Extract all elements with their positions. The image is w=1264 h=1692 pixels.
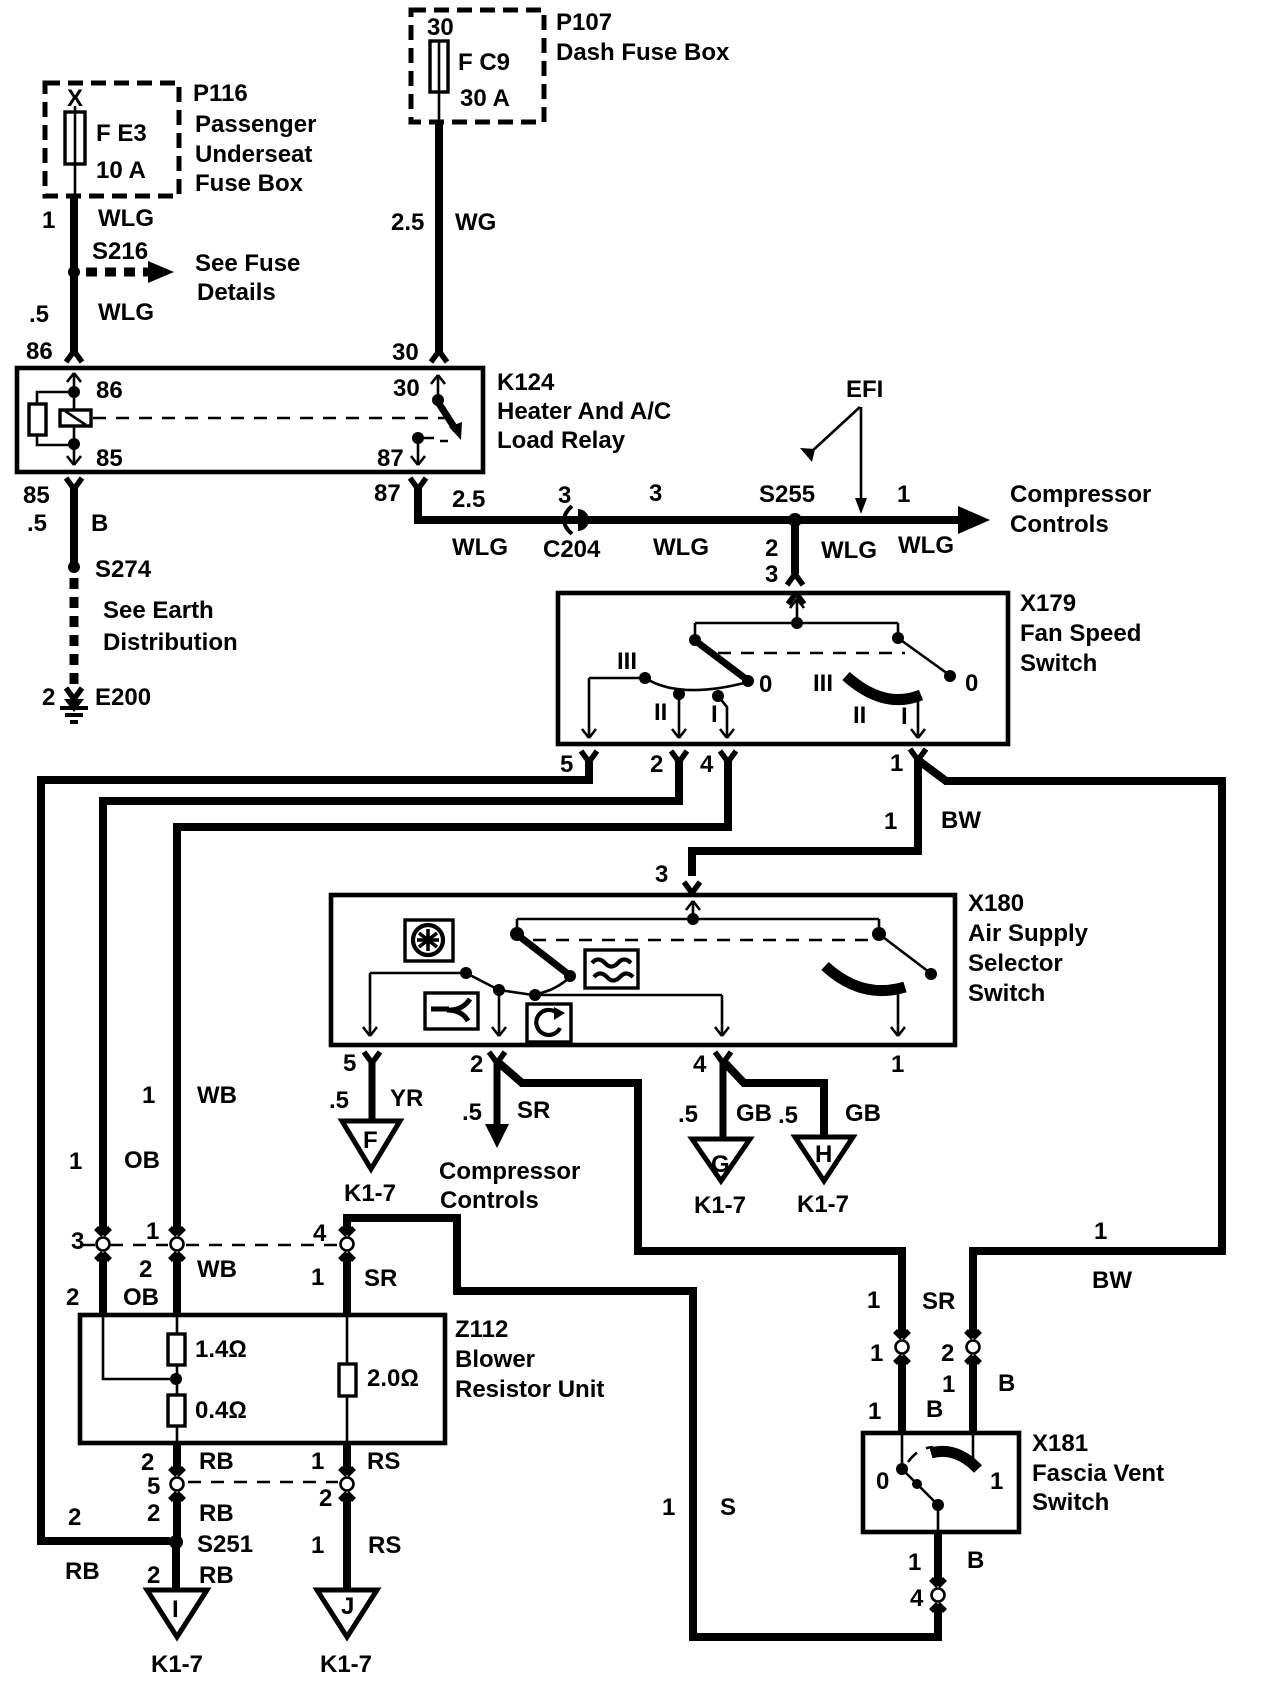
svg-text:Fuse Box: Fuse Box [195, 170, 304, 197]
contact I left [712, 690, 724, 702]
defrost icon [585, 950, 638, 988]
svg-text:S274: S274 [95, 556, 152, 583]
svg-text:WLG: WLG [452, 534, 508, 561]
svg-text:1: 1 [870, 1340, 883, 1367]
svg-text:85: 85 [96, 445, 123, 472]
fan speed switch X179 box [558, 593, 1008, 744]
svg-text:2: 2 [68, 1504, 81, 1531]
ground E200 [64, 699, 84, 712]
pin 1 internal lead [901, 1433, 904, 1466]
svg-text:3: 3 [655, 861, 668, 888]
svg-text:Z112: Z112 [455, 1316, 508, 1343]
svg-text:5: 5 [147, 1473, 160, 1500]
relay coil resistor [37, 392, 74, 445]
svg-text:S: S [720, 1494, 736, 1521]
connector pin 2 (RS) [340, 1468, 354, 1475]
svg-text:G: G [711, 1151, 730, 1178]
svg-text:5: 5 [343, 1050, 356, 1077]
svg-text:See Fuse: See Fuse [195, 250, 300, 277]
svg-text:WLG: WLG [98, 299, 154, 326]
connector C204 [564, 506, 572, 534]
svg-text:1: 1 [884, 808, 897, 835]
svg-text:Switch: Switch [1032, 1489, 1109, 1516]
svg-text:Heater And A/C: Heater And A/C [497, 398, 671, 425]
svg-text:BW: BW [1092, 1267, 1132, 1294]
svg-text:B: B [91, 510, 108, 537]
splice S251 [169, 1535, 183, 1549]
rotary travel arc [825, 966, 905, 991]
wire S216 arrow to fuse details [86, 268, 148, 277]
svg-text:2: 2 [147, 1500, 160, 1527]
svg-text:3: 3 [71, 1228, 84, 1255]
svg-text:1: 1 [867, 1287, 880, 1314]
svg-text:2.5: 2.5 [391, 209, 424, 236]
svg-text:2: 2 [319, 1485, 332, 1512]
pin 4 connector [715, 1052, 731, 1063]
svg-text:Blower: Blower [455, 1346, 535, 1373]
wire to connector J (RS) [343, 1496, 351, 1590]
svg-text:1: 1 [42, 207, 55, 234]
svg-text:Fan Speed: Fan Speed [1020, 620, 1141, 647]
svg-text:30 A: 30 A [460, 85, 510, 112]
wire X180 pin 5 to connector F (.5 YR) [369, 1060, 376, 1121]
pin 85 internal arrow [67, 444, 81, 465]
svg-text:Fascia Vent: Fascia Vent [1032, 1460, 1164, 1487]
svg-text:86: 86 [96, 377, 123, 404]
svg-text:.5: .5 [27, 510, 47, 537]
left wiper pivot [516, 919, 519, 932]
svg-text:.5: .5 [462, 1099, 482, 1126]
svg-text:EFI: EFI [846, 376, 883, 403]
svg-text:.5: .5 [29, 301, 49, 328]
wire into X181 pin 2 (B) [969, 1359, 977, 1433]
fuse box P116 (dashed) [45, 83, 179, 196]
svg-text:Distribution: Distribution [103, 629, 238, 656]
fuse box P107 (dashed) [411, 10, 544, 122]
svg-text:1: 1 [1094, 1218, 1107, 1245]
splice S255 [788, 513, 802, 527]
svg-text:S216: S216 [92, 238, 148, 265]
svg-text:III: III [617, 648, 637, 675]
node 30 [432, 394, 444, 406]
svg-text:2.5: 2.5 [452, 486, 485, 513]
svg-text:RB: RB [65, 1558, 100, 1585]
dashed wire to earth distribution [70, 578, 79, 686]
svg-text:K1-7: K1-7 [797, 1191, 849, 1218]
resistor 2.0 ohm [346, 1315, 349, 1364]
right wiper pivot [897, 623, 900, 636]
pin 5 connector [364, 1052, 380, 1063]
relay armature element [73, 392, 76, 444]
svg-text:1: 1 [662, 1494, 675, 1521]
svg-text:2: 2 [650, 751, 663, 778]
pin 4 internal arrow [718, 696, 734, 738]
svg-text:2: 2 [765, 535, 778, 562]
inline connector row dashed line [82, 1244, 340, 1247]
pin 1 internal arrow [911, 697, 925, 738]
svg-text:30: 30 [427, 14, 454, 41]
wire X179 pin 1 down (BW) [692, 757, 918, 876]
wire X179 pin 2 to OB column [103, 759, 679, 1232]
EFI pointer arrows [810, 407, 861, 500]
connector H triangle [795, 1137, 853, 1181]
svg-text:1: 1 [942, 1371, 955, 1398]
svg-text:3: 3 [558, 482, 571, 509]
svg-text:Underseat: Underseat [195, 141, 312, 168]
svg-text:30: 30 [393, 375, 420, 402]
relay K124 box [17, 368, 483, 472]
pin 87 internal arrow [411, 440, 425, 465]
svg-text:J: J [341, 1593, 354, 1620]
dashed connector row [188, 1481, 338, 1484]
X180 pin 3 connector [684, 882, 700, 893]
fuse F C9 [430, 41, 448, 92]
svg-text:Air Supply: Air Supply [968, 920, 1089, 947]
svg-text:2: 2 [941, 1340, 954, 1367]
dashed travel line [908, 1447, 933, 1462]
svg-text:1: 1 [311, 1532, 324, 1559]
svg-text:RB: RB [199, 1500, 234, 1527]
svg-text:1: 1 [908, 1549, 921, 1576]
svg-text:I: I [711, 701, 718, 728]
svg-text:WG: WG [455, 209, 496, 236]
svg-text:B: B [926, 1396, 943, 1423]
svg-text:WB: WB [197, 1256, 237, 1283]
svg-text:Resistor Unit: Resistor Unit [455, 1376, 604, 1403]
svg-text:2.0Ω: 2.0Ω [367, 1365, 419, 1392]
svg-text:0.4Ω: 0.4Ω [195, 1397, 247, 1424]
contact rail to pin 4 [535, 994, 722, 997]
svg-text:.5: .5 [678, 1101, 698, 1128]
svg-text:GB: GB [845, 1100, 881, 1127]
svg-text:Switch: Switch [1020, 650, 1097, 677]
svg-text:4: 4 [313, 1220, 327, 1247]
pin 1 connector [910, 749, 926, 760]
recirculation icon [527, 1004, 571, 1042]
svg-text:1: 1 [69, 1148, 82, 1175]
pin 2 internal arrow [492, 990, 506, 1036]
svg-text:OB: OB [124, 1147, 160, 1174]
wire to S251 (RB) [173, 1496, 181, 1537]
left wiper pivot [694, 623, 697, 638]
svg-text:OB: OB [123, 1284, 159, 1311]
svg-text:2: 2 [141, 1449, 154, 1476]
svg-text:H: H [815, 1141, 832, 1168]
svg-text:S255: S255 [759, 481, 815, 508]
svg-text:3: 3 [649, 480, 662, 507]
svg-text:87: 87 [377, 445, 404, 472]
svg-text:1: 1 [146, 1218, 159, 1245]
svg-text:2: 2 [66, 1284, 79, 1311]
svg-text:E200: E200 [95, 684, 151, 711]
svg-text:10 A: 10 A [96, 157, 146, 184]
wire SR from Z112 connector up and over to fascia vent switch (S) [347, 1218, 938, 1637]
node between resistors [176, 1365, 179, 1395]
rotary travel arc [931, 1451, 978, 1469]
left wiper arm [697, 642, 746, 679]
relay switch arm [438, 402, 456, 430]
pin 2 connector [671, 751, 687, 762]
svg-text:S251: S251 [197, 1531, 253, 1558]
wire OB into Z112 [99, 1256, 107, 1315]
wire X179 pin 4 to WB column [177, 759, 728, 1232]
right wiper arm [879, 934, 929, 972]
svg-text:RS: RS [368, 1532, 401, 1559]
svg-text:F C9: F C9 [458, 49, 510, 76]
svg-text:K1-7: K1-7 [344, 1180, 396, 1207]
svg-text:1.4Ω: 1.4Ω [195, 1336, 247, 1363]
wiper arm [902, 1469, 938, 1505]
svg-text:Load Relay: Load Relay [497, 427, 626, 454]
svg-text:2: 2 [147, 1562, 160, 1589]
svg-text:Controls: Controls [1010, 511, 1109, 538]
wiper pivot 0 [896, 1463, 908, 1475]
svg-text:30: 30 [392, 339, 419, 366]
dashed detent line [533, 939, 876, 942]
svg-text:1: 1 [890, 750, 903, 777]
svg-text:Switch: Switch [968, 980, 1045, 1007]
svg-text:WB: WB [197, 1082, 237, 1109]
OB branch inside Z112 [103, 1315, 170, 1379]
svg-text:4: 4 [700, 751, 714, 778]
connector G triangle [692, 1139, 750, 1181]
pin 2 internal lead [972, 1433, 975, 1458]
wire SR into Z112 [343, 1256, 351, 1315]
wire X180 pin 2 down arrow to compressor controls (.5 SR) [494, 1060, 501, 1128]
wire 85 to S274 (.5 B) [70, 486, 78, 567]
svg-text:II: II [654, 699, 667, 726]
feed rail [695, 622, 898, 625]
wire 87 to compressor controls (WLG) [418, 486, 958, 520]
pin 3 connector at top [788, 593, 804, 604]
splice S216 [68, 266, 80, 278]
fuse F E3 [74, 106, 77, 196]
svg-text:P107: P107 [556, 9, 612, 36]
svg-text:1: 1 [897, 481, 910, 508]
wire X180 pin 4 branch to connector H (.5 GB) [725, 1063, 824, 1136]
svg-text:Controls: Controls [440, 1187, 539, 1214]
svg-text:C204: C204 [543, 536, 601, 563]
svg-text:WLG: WLG [653, 534, 709, 561]
pin 4 internal arrow [715, 995, 729, 1036]
svg-text:SR: SR [517, 1097, 550, 1124]
svg-text:I: I [901, 703, 908, 730]
svg-text:I: I [172, 1596, 179, 1623]
svg-text:RB: RB [199, 1562, 234, 1589]
dashed detent line [718, 652, 905, 655]
svg-text:BW: BW [941, 807, 981, 834]
left wiper arm [519, 936, 568, 974]
svg-text:0: 0 [759, 671, 772, 698]
svg-text:Selector: Selector [968, 950, 1063, 977]
node 85 [68, 438, 80, 450]
blower resistor unit Z112 box [80, 1315, 445, 1443]
svg-text:B: B [967, 1547, 984, 1574]
svg-text:2: 2 [470, 1051, 483, 1078]
svg-text:85: 85 [23, 482, 50, 509]
svg-text:4: 4 [910, 1585, 924, 1612]
contact link [466, 973, 497, 989]
svg-text:1: 1 [868, 1398, 881, 1425]
svg-text:1: 1 [142, 1082, 155, 1109]
svg-text:.5: .5 [329, 1087, 349, 1114]
svg-text:WLG: WLG [98, 205, 154, 232]
svg-text:X181: X181 [1032, 1430, 1088, 1457]
feed rail [517, 918, 879, 921]
wire S251 to connector I (RB) [172, 1548, 180, 1590]
contact II left [673, 688, 685, 700]
contact arc segments [645, 678, 748, 690]
pin 5 connector [581, 751, 597, 762]
wire X179 pin 5 to left trunk then to S251 (RB) [41, 759, 589, 1541]
svg-text:0: 0 [876, 1468, 889, 1495]
svg-text:III: III [813, 670, 833, 697]
svg-text:YR: YR [390, 1085, 423, 1112]
svg-text:1: 1 [891, 1051, 904, 1078]
node 86 [68, 386, 80, 398]
bi-level icon [425, 993, 478, 1029]
svg-text:4: 4 [693, 1051, 707, 1078]
svg-text:3: 3 [765, 561, 778, 588]
contact node pin 2 [493, 984, 505, 996]
svg-text:See Earth: See Earth [103, 597, 214, 624]
fan icon [405, 920, 453, 961]
svg-text:Compressor: Compressor [439, 1158, 580, 1185]
pin 2 internal arrow [672, 694, 686, 738]
pin 3 internal arrow [790, 599, 804, 623]
pin 2 connector [489, 1052, 505, 1063]
svg-text:RB: RB [199, 1448, 234, 1475]
contact 87 node [412, 432, 424, 444]
svg-text:Compressor: Compressor [1010, 481, 1151, 508]
pin 5 internal arrow [363, 973, 377, 1036]
svg-text:5: 5 [560, 751, 573, 778]
wire P107 to K124 pin 30 (WG) [435, 122, 443, 352]
wire X181 bottom pin (B) [934, 1532, 942, 1583]
svg-text:K1-7: K1-7 [320, 1651, 372, 1678]
right wiper pivot [878, 919, 881, 932]
bottom contact lead [937, 1505, 940, 1532]
svg-text:0: 0 [965, 670, 978, 697]
svg-text:B: B [998, 1370, 1015, 1397]
svg-text:II: II [853, 702, 866, 729]
svg-text:Details: Details [197, 279, 276, 306]
wire WB into Z112 [173, 1256, 181, 1315]
svg-text:2: 2 [139, 1256, 152, 1283]
wiper end node [564, 970, 576, 982]
svg-text:F: F [363, 1127, 378, 1154]
svg-text:2: 2 [42, 684, 55, 711]
resistor 1.4 ohm [176, 1315, 179, 1334]
resistor 0.4 ohm [168, 1395, 185, 1426]
dashed actuation line [93, 417, 446, 420]
svg-text:1: 1 [311, 1448, 324, 1475]
svg-text:K1-7: K1-7 [694, 1192, 746, 1219]
svg-text:86: 86 [26, 338, 53, 365]
svg-text:SR: SR [922, 1288, 955, 1315]
wire S255 to X179 pin 3 [791, 526, 799, 574]
contact line to pin 5 [370, 972, 462, 975]
svg-text:K1-7: K1-7 [151, 1651, 203, 1678]
svg-text:SR: SR [364, 1265, 397, 1292]
svg-text:WLG: WLG [898, 532, 954, 559]
wire P116 pin 1 to K124 pin 86 (WLG) [70, 196, 78, 352]
air supply selector switch X180 box [331, 895, 955, 1045]
wire Z112 pin 2 down (RB) [173, 1443, 181, 1472]
node feed [791, 617, 803, 629]
svg-text:1: 1 [311, 1264, 324, 1291]
pin 5 internal arrow [582, 678, 596, 738]
pin 1 internal arrow [891, 992, 905, 1036]
pin 86 internal arrow [67, 373, 81, 392]
connector F triangle [342, 1121, 400, 1169]
svg-text:K124: K124 [497, 369, 555, 396]
svg-text:P116: P116 [193, 80, 248, 107]
contact node pin 4 [529, 989, 541, 1001]
right wiper arm [898, 638, 948, 674]
pin 30 internal arrow [431, 375, 445, 398]
svg-text:GB: GB [736, 1100, 772, 1127]
svg-text:.5: .5 [778, 1102, 798, 1129]
fascia vent switch X181 box [863, 1433, 1019, 1532]
pin 3 internal arrow [686, 901, 700, 919]
svg-text:1: 1 [990, 1468, 1003, 1495]
wire X180 pin 2 branch to X181 pin 1 (SR) [499, 1063, 902, 1335]
svg-text:X179: X179 [1020, 590, 1076, 617]
wire X179 pin 1 branch to right trunk (BW) [918, 760, 1222, 1335]
rotary travel arc [846, 676, 921, 700]
connector I triangle [147, 1590, 207, 1637]
svg-text:F E3: F E3 [96, 120, 147, 147]
svg-text:Passenger: Passenger [195, 111, 316, 138]
contact link [499, 977, 570, 995]
wire Z112 pin 1 down (RS) [343, 1443, 351, 1472]
wire into X181 pin 1 (B) [898, 1359, 906, 1433]
connector J triangle [317, 1590, 377, 1637]
svg-text:Dash Fuse Box: Dash Fuse Box [556, 39, 730, 66]
node feed [687, 913, 699, 925]
wire X180 pin 4 to connector G (.5 GB) [720, 1060, 727, 1138]
svg-text:RS: RS [367, 1448, 400, 1475]
svg-text:X180: X180 [968, 890, 1024, 917]
pin 4 connector [720, 751, 736, 762]
svg-text:WLG: WLG [821, 537, 877, 564]
svg-text:87: 87 [374, 480, 401, 507]
contact 0 left [742, 675, 754, 687]
splice S274 [68, 561, 80, 573]
